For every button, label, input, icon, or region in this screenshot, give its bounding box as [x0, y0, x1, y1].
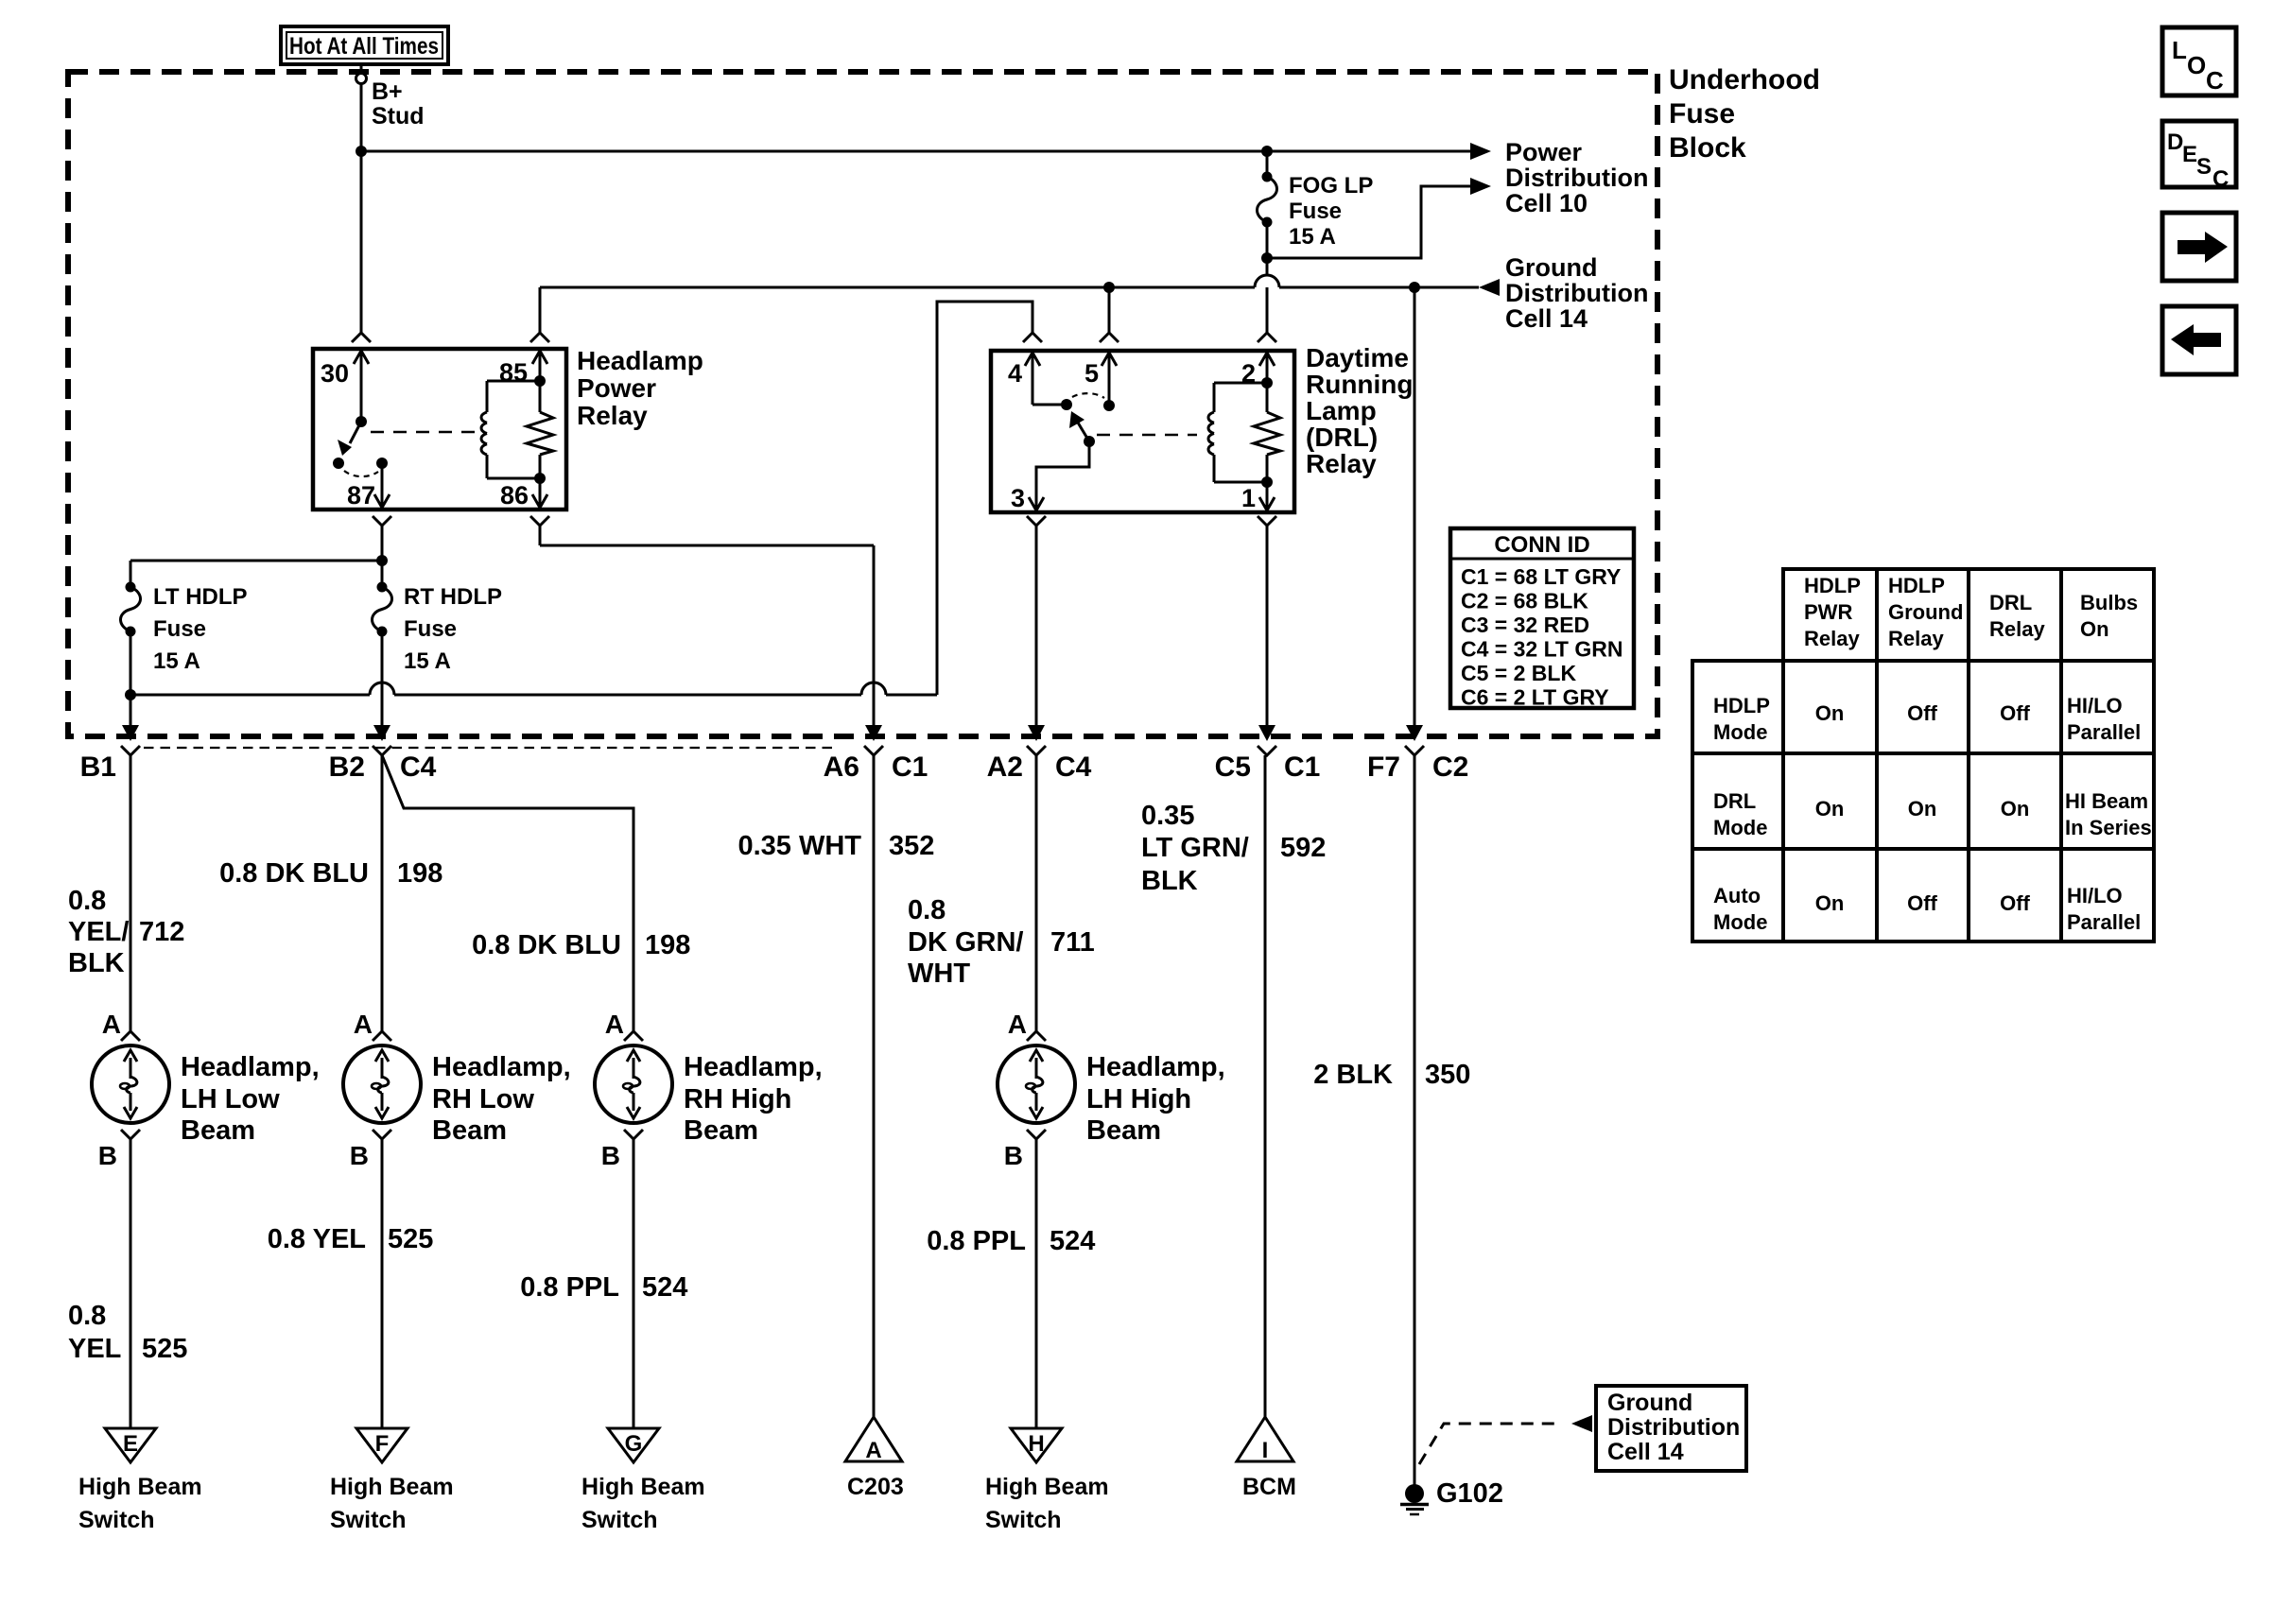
svg-text:BLK: BLK: [68, 948, 125, 978]
svg-text:Off: Off: [2000, 701, 2030, 725]
svg-text:15 A: 15 A: [1289, 224, 1336, 250]
svg-text:198: 198: [645, 930, 690, 960]
svg-text:Headlamp,: Headlamp,: [432, 1052, 571, 1082]
svg-text:A6: A6: [824, 752, 859, 783]
svg-text:B1: B1: [80, 752, 116, 783]
svg-text:Bulbs: Bulbs: [2080, 591, 2138, 614]
svg-text:Switch: Switch: [985, 1507, 1062, 1533]
svg-text:Distribution: Distribution: [1505, 164, 1648, 192]
svg-text:Beam: Beam: [1086, 1115, 1161, 1146]
svg-text:Relay: Relay: [1804, 627, 1860, 650]
svg-text:592: 592: [1280, 833, 1326, 863]
svg-text:0.8: 0.8: [68, 886, 106, 916]
svg-text:On: On: [2001, 797, 2030, 821]
svg-text:Off: Off: [1907, 701, 1937, 725]
svg-text:Underhood: Underhood: [1669, 64, 1820, 95]
svg-text:HI/LO: HI/LO: [2067, 884, 2123, 907]
svg-text:Distribution: Distribution: [1505, 279, 1648, 307]
svg-text:Headlamp,: Headlamp,: [684, 1052, 823, 1082]
svg-text:198: 198: [397, 858, 442, 889]
svg-text:Beam: Beam: [181, 1115, 255, 1146]
svg-text:524: 524: [642, 1272, 687, 1303]
svg-text:C4 = 32 LT GRN: C4 = 32 LT GRN: [1461, 637, 1622, 662]
svg-text:Cell 14: Cell 14: [1505, 304, 1588, 333]
svg-text:Beam: Beam: [684, 1115, 758, 1146]
svg-text:524: 524: [1050, 1226, 1095, 1256]
svg-text:YEL: YEL: [68, 1334, 121, 1364]
svg-text:C1: C1: [892, 752, 928, 783]
svg-text:C3 = 32 RED: C3 = 32 RED: [1461, 613, 1589, 637]
svg-text:Relay: Relay: [1306, 449, 1377, 478]
svg-text:30: 30: [321, 359, 349, 388]
svg-text:A: A: [865, 1438, 881, 1463]
svg-text:Parallel: Parallel: [2067, 910, 2141, 934]
svg-text:Switch: Switch: [581, 1507, 658, 1533]
svg-text:Distribution: Distribution: [1607, 1414, 1740, 1441]
svg-text:Ground: Ground: [1607, 1390, 1692, 1416]
svg-text:Power: Power: [577, 373, 656, 403]
svg-text:D: D: [2167, 130, 2183, 155]
svg-text:RT HDLP: RT HDLP: [404, 584, 502, 610]
svg-text:Stud: Stud: [372, 103, 425, 130]
svg-text:YEL/: YEL/: [68, 917, 129, 947]
svg-text:BLK: BLK: [1141, 866, 1198, 896]
svg-text:Fuse: Fuse: [1669, 98, 1735, 130]
svg-text:DRL: DRL: [1989, 591, 2032, 614]
svg-text:BCM: BCM: [1242, 1474, 1296, 1500]
svg-text:C1 = 68 LT GRY: C1 = 68 LT GRY: [1461, 564, 1621, 589]
svg-text:O: O: [2187, 51, 2206, 79]
svg-text:High Beam: High Beam: [581, 1474, 705, 1500]
svg-text:Lamp: Lamp: [1306, 396, 1377, 425]
svg-text:LH High: LH High: [1086, 1084, 1191, 1114]
svg-text:Ground: Ground: [1505, 253, 1597, 282]
svg-text:HDLP: HDLP: [1713, 694, 1770, 717]
svg-text:525: 525: [388, 1224, 433, 1254]
svg-text:B: B: [601, 1141, 620, 1170]
svg-text:0.35 WHT: 0.35 WHT: [737, 831, 861, 861]
svg-text:I: I: [1262, 1438, 1269, 1463]
svg-text:E: E: [123, 1431, 138, 1457]
svg-text:C1: C1: [1284, 752, 1320, 783]
svg-text:HI/LO: HI/LO: [2067, 694, 2123, 717]
svg-text:On: On: [1815, 797, 1845, 821]
svg-text:B+: B+: [372, 78, 403, 105]
svg-text:HDLP: HDLP: [1888, 574, 1945, 597]
svg-text:(DRL): (DRL): [1306, 423, 1378, 452]
svg-text:A: A: [1008, 1010, 1027, 1039]
svg-text:C2: C2: [1432, 752, 1468, 783]
svg-text:LT HDLP: LT HDLP: [153, 584, 248, 610]
svg-text:352: 352: [889, 831, 934, 861]
svg-text:C4: C4: [400, 752, 437, 783]
svg-text:A: A: [354, 1010, 373, 1039]
svg-text:Headlamp,: Headlamp,: [1086, 1052, 1225, 1082]
svg-text:0.8: 0.8: [908, 895, 946, 925]
svg-text:F7: F7: [1367, 752, 1400, 783]
svg-text:LT GRN/: LT GRN/: [1141, 833, 1249, 863]
svg-text:RH Low: RH Low: [432, 1084, 534, 1114]
svg-text:0.8 PPL: 0.8 PPL: [520, 1272, 619, 1303]
svg-text:Off: Off: [1907, 891, 1937, 915]
svg-text:Headlamp,: Headlamp,: [181, 1052, 320, 1082]
svg-text:In Series: In Series: [2065, 816, 2152, 839]
svg-text:C5 = 2 BLK: C5 = 2 BLK: [1461, 661, 1576, 685]
svg-text:C2 = 68 BLK: C2 = 68 BLK: [1461, 589, 1588, 613]
svg-text:A: A: [102, 1010, 121, 1039]
svg-text:WHT: WHT: [908, 959, 970, 989]
svg-text:B: B: [98, 1141, 117, 1170]
svg-text:C4: C4: [1055, 752, 1092, 783]
svg-text:0.8 DK BLU: 0.8 DK BLU: [472, 930, 621, 960]
svg-text:Mode: Mode: [1713, 816, 1767, 839]
svg-text:DRL: DRL: [1713, 789, 1756, 813]
svg-text:15 A: 15 A: [153, 648, 200, 674]
svg-text:Daytime: Daytime: [1306, 343, 1409, 372]
svg-text:FOG LP: FOG LP: [1289, 173, 1373, 199]
svg-text:5: 5: [1084, 359, 1099, 388]
svg-text:3: 3: [1011, 484, 1025, 512]
svg-text:Relay: Relay: [577, 401, 648, 430]
svg-text:B: B: [1004, 1141, 1023, 1170]
svg-text:Parallel: Parallel: [2067, 720, 2141, 744]
svg-text:0.8 PPL: 0.8 PPL: [927, 1226, 1026, 1256]
svg-text:Switch: Switch: [330, 1507, 407, 1533]
svg-text:DK GRN/: DK GRN/: [908, 927, 1023, 958]
svg-text:Relay: Relay: [1989, 617, 2045, 641]
svg-text:H: H: [1028, 1431, 1044, 1457]
svg-text:L: L: [2172, 36, 2187, 64]
svg-text:HDLP: HDLP: [1804, 574, 1861, 597]
svg-text:0.8: 0.8: [68, 1301, 106, 1331]
svg-text:G102: G102: [1436, 1478, 1503, 1509]
svg-text:87: 87: [347, 481, 375, 510]
svg-text:Mode: Mode: [1713, 910, 1767, 934]
svg-text:525: 525: [142, 1334, 187, 1364]
svg-text:Relay: Relay: [1888, 627, 1944, 650]
svg-text:350: 350: [1425, 1060, 1470, 1090]
svg-text:S: S: [2196, 154, 2212, 180]
svg-text:Fuse: Fuse: [1289, 199, 1342, 224]
svg-text:On: On: [2080, 617, 2109, 641]
svg-text:C6 = 2 LT GRY: C6 = 2 LT GRY: [1461, 685, 1609, 710]
svg-text:0.35: 0.35: [1141, 801, 1194, 831]
svg-text:Switch: Switch: [78, 1507, 155, 1533]
svg-text:Cell 14: Cell 14: [1607, 1439, 1684, 1465]
svg-text:A: A: [605, 1010, 624, 1039]
svg-text:C: C: [2212, 166, 2229, 192]
svg-text:Hot At All Times: Hot At All Times: [289, 33, 439, 60]
svg-text:E: E: [2182, 142, 2197, 167]
svg-text:Running: Running: [1306, 370, 1414, 399]
svg-text:86: 86: [500, 481, 529, 510]
svg-text:PWR: PWR: [1804, 600, 1852, 624]
svg-text:Auto: Auto: [1713, 884, 1761, 907]
svg-text:F: F: [375, 1431, 390, 1457]
svg-text:Cell 10: Cell 10: [1505, 189, 1588, 217]
svg-text:Fuse: Fuse: [404, 616, 457, 642]
svg-text:C5: C5: [1215, 752, 1251, 783]
svg-text:HI Beam: HI Beam: [2065, 789, 2148, 813]
svg-text:Beam: Beam: [432, 1115, 507, 1146]
svg-text:712: 712: [139, 917, 184, 947]
svg-text:Mode: Mode: [1713, 720, 1767, 744]
svg-text:LH Low: LH Low: [181, 1084, 280, 1114]
svg-text:RH High: RH High: [684, 1084, 791, 1114]
svg-text:High Beam: High Beam: [78, 1474, 202, 1500]
svg-text:1: 1: [1241, 484, 1256, 512]
svg-text:4: 4: [1008, 359, 1022, 388]
svg-text:CONN ID: CONN ID: [1494, 532, 1589, 558]
svg-text:Ground: Ground: [1888, 600, 1963, 624]
svg-text:On: On: [1908, 797, 1937, 821]
svg-text:On: On: [1815, 891, 1845, 915]
svg-text:C203: C203: [847, 1474, 904, 1500]
svg-text:2 BLK: 2 BLK: [1313, 1060, 1393, 1090]
svg-text:0.8 DK BLU: 0.8 DK BLU: [219, 858, 369, 889]
svg-text:High Beam: High Beam: [330, 1474, 454, 1500]
svg-text:High Beam: High Beam: [985, 1474, 1109, 1500]
svg-text:0.8 YEL: 0.8 YEL: [268, 1224, 366, 1254]
svg-text:C: C: [2206, 66, 2224, 95]
svg-text:Off: Off: [2000, 891, 2030, 915]
svg-text:B: B: [350, 1141, 369, 1170]
svg-text:Fuse: Fuse: [153, 616, 206, 642]
svg-text:Block: Block: [1669, 132, 1746, 164]
svg-text:15 A: 15 A: [404, 648, 451, 674]
svg-text:B2: B2: [329, 752, 365, 783]
svg-text:Power: Power: [1505, 138, 1583, 166]
svg-text:A2: A2: [987, 752, 1023, 783]
svg-text:G: G: [625, 1431, 643, 1457]
svg-text:Headlamp: Headlamp: [577, 346, 703, 375]
svg-text:711: 711: [1050, 927, 1095, 958]
svg-text:On: On: [1815, 701, 1845, 725]
